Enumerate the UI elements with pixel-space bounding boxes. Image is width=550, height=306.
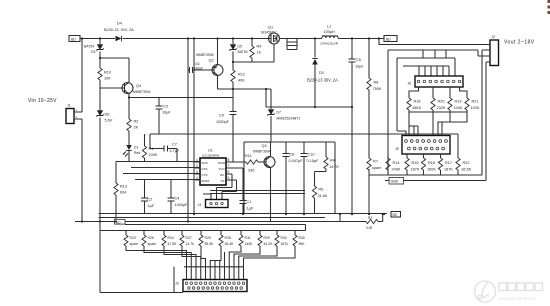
capacitor C6 — [188, 62, 214, 73]
capacitor C5 — [349, 39, 365, 215]
resistor R17 — [438, 158, 453, 175]
svg-text:10µF: 10µF — [355, 65, 364, 69]
capacitor C1 — [240, 168, 254, 214]
wire mid rail y97 — [129, 97, 233, 99]
svg-text:R27: R27 — [186, 236, 192, 240]
svg-text:R13: R13 — [120, 185, 127, 189]
svg-text:143K: 143K — [454, 106, 463, 110]
svg-text:Vin 10–25V: Vin 10–25V — [28, 98, 57, 104]
resistor R8 — [367, 39, 382, 159]
diode D3 BAT54 — [84, 45, 104, 55]
svg-text:100K: 100K — [149, 153, 158, 157]
svg-text:R4: R4 — [330, 159, 335, 163]
svg-text:C1: C1 — [247, 200, 252, 204]
svg-text:D1: D1 — [134, 146, 138, 150]
resistor R25 — [199, 231, 214, 247]
IC U1 — [195, 149, 243, 186]
svg-text:Vout 2~18V: Vout 2~18V — [504, 40, 535, 46]
svg-text:MMBT3904: MMBT3904 — [253, 150, 271, 154]
svg-text:330µF: 330µF — [194, 66, 204, 70]
svg-text:J5: J5 — [395, 147, 399, 151]
resistor R1 — [142, 134, 157, 162]
svg-text:TS: TS — [221, 179, 225, 183]
resistor R15 — [405, 158, 420, 175]
svg-text:BD: BD — [386, 37, 391, 41]
resistor R5 — [312, 186, 327, 214]
diode D5 BAT54 — [229, 39, 247, 63]
resistor R19 — [448, 98, 463, 110]
node BD bottom-right — [391, 212, 401, 218]
capacitor C9 — [216, 89, 237, 162]
svg-text:1000µF: 1000µF — [175, 203, 189, 207]
svg-text:SC13056PW: SC13056PW — [202, 154, 220, 158]
svg-text:B230-13, 30V, 2A: B230-13, 30V, 2A — [104, 28, 134, 32]
svg-text:750K: 750K — [373, 87, 382, 91]
wire gate node — [233, 45, 274, 63]
watermark text — [498, 283, 543, 301]
svg-text:187K: 187K — [411, 167, 420, 171]
svg-text:R5: R5 — [319, 188, 324, 192]
resistor R24 — [162, 231, 177, 247]
connector J2 output — [478, 35, 499, 66]
watermark logo — [475, 281, 496, 302]
transistor Q4 — [122, 82, 151, 94]
corner marks top-right — [548, 0, 550, 14]
svg-text:C8: C8 — [290, 153, 295, 157]
resistor R30 — [293, 231, 305, 247]
resistor R22 — [456, 158, 472, 175]
svg-text:4: 4 — [196, 176, 198, 180]
resistor R21 — [465, 98, 480, 110]
svg-text:U1: U1 — [208, 149, 213, 153]
svg-text:82.5K: 82.5K — [462, 167, 472, 171]
svg-text:1: 1 — [196, 158, 198, 162]
svg-text:187k: 187k — [281, 242, 289, 246]
wire J6 to R18 row — [409, 87, 467, 98]
resistor R10 — [98, 68, 111, 81]
svg-text:R21: R21 — [472, 100, 479, 104]
svg-text:R20: R20 — [438, 100, 445, 104]
svg-text:CDRH125L/NP: CDRH125L/NP — [320, 42, 338, 46]
wire bus line y134 — [150, 133, 458, 135]
node ED bottom-left — [115, 219, 126, 224]
svg-text:Q4: Q4 — [136, 84, 141, 88]
svg-text:95.3K: 95.3K — [205, 242, 215, 246]
svg-text:Red: Red — [134, 151, 140, 155]
wire J5 to R14 row — [388, 154, 441, 158]
svg-text:C5: C5 — [356, 58, 361, 62]
svg-text:Q3: Q3 — [262, 144, 267, 148]
svg-text:0.15µF: 0.15µF — [307, 159, 320, 163]
wire R2/D1 column — [128, 98, 130, 162]
connector J6 — [408, 76, 464, 87]
svg-text:VSS: VSS — [202, 167, 208, 171]
svg-text:spare: spare — [130, 242, 139, 246]
svg-text:BD: BD — [71, 37, 76, 41]
wire Q3 box — [244, 142, 335, 214]
svg-text:R24: R24 — [168, 236, 174, 240]
wire ground rail B with R3 loop — [75, 214, 383, 222]
wire top rail — [80, 39, 490, 45]
wire J2 sense lines — [478, 50, 486, 181]
svg-text:143K: 143K — [245, 242, 254, 246]
svg-text:L1: L1 — [327, 25, 331, 29]
package pin stubs Q1 — [287, 39, 297, 50]
svg-text:spare: spare — [372, 166, 382, 170]
svg-text:R22: R22 — [463, 161, 470, 165]
svg-text:C4: C4 — [175, 197, 180, 201]
svg-text:232K: 232K — [437, 106, 446, 110]
svg-text:330: 330 — [248, 169, 254, 173]
junction dots bottom rails — [81, 213, 385, 223]
wire y107 — [266, 89, 352, 107]
svg-text:Q2: Q2 — [209, 59, 214, 63]
svg-text:7: 7 — [228, 164, 230, 168]
svg-text:BD: BD — [393, 213, 398, 217]
svg-text:R11: R11 — [245, 154, 252, 158]
svg-text:R3: R3 — [368, 216, 372, 220]
diode D4 — [104, 22, 134, 42]
svg-text:GND: GND — [391, 180, 399, 184]
resistor R2 — [127, 119, 139, 131]
node BD top-left — [69, 36, 80, 42]
svg-text:R10: R10 — [104, 71, 111, 75]
transistor Q2 PNP — [196, 53, 223, 76]
wire C7 branch — [150, 134, 177, 162]
svg-text:8: 8 — [228, 158, 230, 162]
svg-text:44.2K: 44.2K — [264, 242, 274, 246]
svg-text:100µH: 100µH — [324, 30, 336, 34]
svg-text:4.7µF: 4.7µF — [170, 149, 180, 153]
node GND — [389, 178, 404, 185]
connector J5 — [395, 136, 450, 155]
svg-text:R23: R23 — [130, 236, 136, 240]
wire D3/R10/D6 column — [100, 39, 125, 222]
resistor R29 — [258, 231, 273, 247]
svg-text:D3: D3 — [91, 50, 95, 54]
svg-text:R9: R9 — [257, 45, 262, 49]
svg-text:VCC: VCC — [219, 167, 226, 171]
svg-text:1K: 1K — [257, 51, 262, 55]
wire pin6 pin5 routing to J4 — [203, 174, 237, 200]
svg-text:C9: C9 — [219, 114, 224, 118]
svg-text:SNS: SNS — [202, 161, 208, 165]
junction dots — [81, 37, 380, 108]
resistor R18 — [407, 98, 422, 110]
svg-text:BAT54: BAT54 — [84, 45, 94, 49]
svg-text:150K: 150K — [427, 167, 436, 171]
svg-text:R19: R19 — [455, 100, 462, 104]
wire J6 feed nest — [397, 50, 455, 136]
svg-text:D7: D7 — [277, 111, 281, 115]
svg-text:14.7K: 14.7K — [329, 165, 339, 169]
wire aux bus lines — [210, 191, 305, 194]
svg-text:2K: 2K — [134, 126, 139, 130]
svg-text:SI3456DV: SI3456DV — [261, 31, 277, 35]
resistor R28 — [219, 231, 234, 247]
svg-text:.1µF: .1µF — [246, 206, 254, 210]
svg-text:spare: spare — [148, 242, 157, 246]
inductor L1 — [320, 25, 338, 46]
svg-text:R12: R12 — [238, 73, 245, 77]
wire Q3 leads — [270, 142, 272, 214]
svg-text:SHDT: SHDT — [202, 179, 210, 183]
connector J4 — [198, 200, 229, 208]
wire ground rail A — [99, 214, 388, 218]
wire Q4 collector path — [100, 58, 129, 98]
svg-text:R17: R17 — [445, 161, 452, 165]
svg-text:Q1: Q1 — [268, 26, 273, 30]
svg-text:C3: C3 — [163, 105, 168, 109]
transistor Q3 — [253, 144, 275, 168]
svg-text:R7: R7 — [373, 160, 378, 164]
svg-text:499: 499 — [238, 79, 244, 83]
svg-text:R16: R16 — [428, 161, 435, 165]
svg-text:CTS: CTS — [202, 173, 208, 177]
resistor R13 — [114, 162, 127, 222]
svg-text:D5: D5 — [238, 45, 242, 49]
svg-text:187K: 187K — [444, 167, 453, 171]
svg-text:J4: J4 — [198, 203, 202, 207]
svg-text:D2: D2 — [319, 71, 324, 75]
svg-text:C10: C10 — [308, 153, 315, 157]
transistor Q1 MOSFET — [261, 26, 280, 45]
capacitor C4 — [168, 180, 189, 215]
svg-text:www.elecfans.com: www.elecfans.com — [498, 296, 536, 301]
svg-text:R31: R31 — [245, 236, 251, 240]
diode D2 — [307, 39, 338, 108]
zener D7 — [267, 89, 300, 142]
svg-text:249K: 249K — [392, 167, 401, 171]
svg-text:R25: R25 — [205, 236, 211, 240]
svg-text:C7: C7 — [172, 143, 177, 147]
resistor R14 — [386, 158, 401, 175]
svg-text:MMBT3906: MMBT3906 — [196, 53, 214, 57]
svg-text:102K: 102K — [471, 106, 480, 110]
capacitor C3 — [156, 98, 172, 135]
svg-text:R15: R15 — [412, 161, 419, 165]
svg-text:J3: J3 — [175, 282, 179, 286]
connector J1 — [66, 104, 82, 124]
svg-text:J1: J1 — [67, 104, 71, 108]
svg-text:0.047µF: 0.047µF — [289, 159, 304, 163]
wire long verticals x188 x194 — [188, 39, 194, 222]
connector J3 — [175, 280, 247, 292]
wire bank to J3 fan — [126, 246, 295, 293]
resistor R9 — [250, 39, 262, 63]
node BD top-right — [384, 36, 397, 42]
wire right frame top — [388, 50, 478, 175]
svg-text:R18: R18 — [414, 100, 421, 104]
svg-text:.1µF: .1µF — [147, 204, 155, 208]
svg-text:681K: 681K — [413, 106, 422, 110]
capacitor C8 — [283, 142, 304, 214]
svg-text:R2: R2 — [134, 120, 139, 124]
svg-text:10µF: 10µF — [162, 111, 171, 115]
svg-text:MOD: MOD — [218, 161, 226, 165]
svg-text:2: 2 — [196, 164, 198, 168]
svg-text:604: 604 — [120, 191, 126, 195]
svg-text:J2: J2 — [491, 35, 496, 39]
wire Q2 emitter/collector — [218, 39, 272, 90]
svg-text:14.7k: 14.7k — [186, 242, 195, 246]
resistor R3 shunt — [366, 216, 378, 230]
svg-text:C2: C2 — [148, 198, 153, 202]
zener D6 — [96, 111, 112, 123]
LED D1 — [123, 145, 140, 157]
svg-text:5: 5 — [228, 176, 230, 180]
svg-text:3: 3 — [196, 170, 198, 174]
wire gnd line y176 — [369, 134, 486, 214]
capacitor C7 — [164, 143, 180, 154]
resistor R4 — [315, 142, 340, 186]
svg-text:59K: 59K — [299, 242, 306, 246]
capacitor C10 — [301, 142, 320, 214]
svg-text:B230-13 30V, 2A: B230-13 30V, 2A — [307, 78, 338, 83]
svg-text:BAT54: BAT54 — [238, 50, 248, 54]
svg-text:10K: 10K — [104, 77, 111, 81]
wire resistor-bank rail — [100, 222, 306, 293]
wire R18 row to J5 — [409, 110, 467, 136]
svg-text:26.4K: 26.4K — [225, 242, 235, 246]
svg-text:R8: R8 — [374, 81, 379, 85]
svg-text:R32: R32 — [281, 236, 287, 240]
svg-text:6: 6 — [228, 170, 230, 174]
resistor R23 — [124, 231, 138, 247]
svg-text:31.6K: 31.6K — [318, 194, 328, 198]
resistor R32 — [275, 231, 288, 247]
resistor R7 spare — [367, 158, 382, 175]
wire U1 input buses — [116, 162, 200, 180]
svg-text:R26: R26 — [148, 236, 154, 240]
svg-text:R28: R28 — [225, 236, 231, 240]
svg-text:0.05: 0.05 — [366, 226, 372, 230]
svg-text:D6: D6 — [105, 113, 110, 117]
svg-text:47.5K: 47.5K — [168, 242, 178, 246]
resistor R26 — [142, 231, 156, 247]
svg-text:MMBT3904: MMBT3904 — [133, 90, 151, 94]
svg-text:R30: R30 — [299, 236, 305, 240]
resistor R11 — [233, 154, 266, 173]
svg-text:5.6V: 5.6V — [105, 119, 113, 123]
resistor R27 — [180, 231, 194, 247]
svg-text:1000µF: 1000µF — [216, 120, 230, 124]
svg-text:R29: R29 — [264, 236, 270, 240]
svg-text:MMSZ5234BT1: MMSZ5234BT1 — [277, 117, 301, 121]
resistor R16 — [421, 158, 436, 175]
resistor R31 — [239, 231, 253, 247]
svg-text:R14: R14 — [393, 161, 400, 165]
svg-text:D4: D4 — [117, 22, 122, 26]
wire left vertical J1 feed — [81, 39, 83, 222]
resistor R20 — [431, 98, 446, 110]
resistor R12 — [231, 62, 245, 89]
svg-text:J6: J6 — [408, 82, 412, 86]
svg-text:R1: R1 — [149, 147, 154, 151]
capacitor C2 — [141, 180, 155, 215]
